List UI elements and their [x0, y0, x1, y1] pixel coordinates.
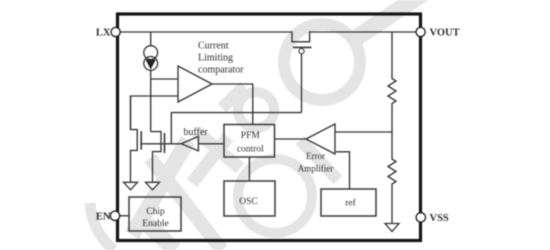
svg-text:buffer: buffer	[184, 127, 209, 138]
svg-text:LX: LX	[96, 28, 111, 39]
svg-text:Chip: Chip	[146, 207, 165, 217]
svg-text:Current: Current	[198, 41, 229, 52]
svg-text:ref: ref	[345, 197, 356, 208]
svg-text:VSS: VSS	[430, 213, 449, 224]
svg-text:Limiting: Limiting	[198, 53, 233, 64]
svg-text:control: control	[237, 145, 264, 155]
svg-text:EN: EN	[96, 212, 111, 223]
svg-text:VOUT: VOUT	[430, 28, 460, 39]
svg-text:OSC: OSC	[239, 197, 257, 207]
svg-text:Enable: Enable	[142, 219, 168, 229]
svg-text:Amplifier: Amplifier	[298, 163, 334, 173]
svg-text:PFM: PFM	[241, 131, 261, 141]
svg-text:Error: Error	[306, 151, 325, 161]
svg-text:comparator: comparator	[198, 65, 244, 76]
